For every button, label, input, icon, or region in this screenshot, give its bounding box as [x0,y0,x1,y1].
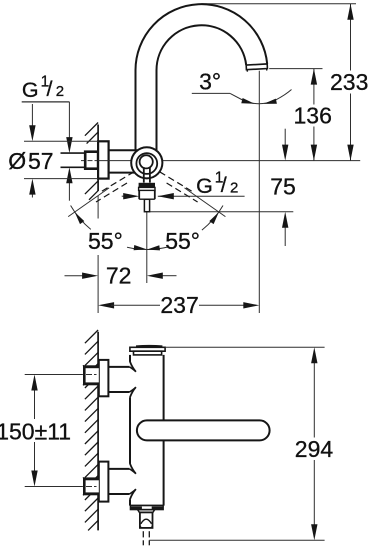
body tube bottom edge [130,505,164,507]
outlet flange [138,510,155,513]
leader arrow G1/2 to pipe stub top [68,102,70,141]
svg-text:G: G [196,174,213,198]
wire: top extension line from spout apex (233 ref) [202,3,357,5]
svg-text:75: 75 [270,173,296,199]
dimension Ø57 arrows [31,104,33,130]
3° leader arc [230,90,291,104]
dimension 294 extension lines [165,346,325,348]
svg-text:3°: 3° [199,68,221,94]
wall line (side view) [97,332,99,531]
dimension Ø57 extension lines [24,140,98,142]
union nut centerline dashes [88,160,93,162]
svg-text:294: 294 [295,436,334,462]
supply tube from escutcheon to body (top view) [109,149,137,151]
lever handle (side view) [137,420,270,440]
55° reference line left [68,188,109,217]
wire: spout outlet vertical extension line [258,71,260,313]
svg-text:2: 2 [56,83,64,100]
wall hatching above flange (top view) [85,123,98,136]
upper wall union (side view) [99,360,109,396]
wire: body centerline extension down to 72 dimension [146,212,148,283]
G1/2 inlet pipe stub (top view) [61,152,86,154]
wall hatching below flange (top view) [85,181,98,194]
svg-text:237: 237 [160,292,198,318]
55° arc center arrowheads [134,245,147,250]
svg-text:/: / [221,173,227,197]
body tube right edge (side view) [163,355,165,421]
gooseneck spout outer contour [135,4,267,150]
body top cap [136,345,162,348]
wall hatching (side view) [85,330,98,343]
lower wall union (side view) [99,462,109,502]
svg-text:/: / [47,77,53,101]
faucet body outer circle [131,147,162,178]
wire: lower reference line at outlet level (75 ref) [150,211,294,213]
dimension 72 arrows [65,275,85,277]
faucet body middle circle [136,153,157,174]
dimension 237 line and arrows [98,302,114,308]
handle stem below body [143,167,145,182]
svg-text:150±11: 150±11 [0,418,71,444]
aerator housing [140,512,153,528]
collar black band [139,183,155,188]
55° arc end arrowheads [75,212,85,224]
aerator outlet stub [144,199,149,211]
svg-text:G: G [22,78,39,102]
faucet body inner circle (handle hub) [140,155,153,168]
svg-text:55°: 55° [88,228,123,254]
gooseneck spout inner contour [156,25,246,150]
arrow G1/2 pipe stub bottom [68,180,70,201]
55° dimension arc [71,206,91,230]
G1/2 outlet leader arrows [158,193,174,199]
wire: wall extension line down to 237 dimension [97,196,99,219]
svg-text:136: 136 [294,103,332,129]
svg-text:Ø 57: Ø 57 [8,148,53,174]
dimension 136 line and arrows [313,69,315,105]
handle phantom dashed lines right (55° swing) [160,172,194,192]
wire: spout outlet horizontal extension line (136 ref) [269,68,322,70]
svg-text:2: 2 [230,179,238,196]
handle phantom dashed lines left (55° swing) [101,172,135,192]
union nut (top view) [85,152,98,169]
55° reference line right [185,188,226,217]
3° arc arrowheads [241,98,254,104]
wire: horizontal centerline of faucet body (top view) [98,160,360,162]
svg-text:233: 233 [330,69,368,95]
water stream dashes [142,531,144,537]
wire: centerline dash left of union nut (top view) [81,160,85,162]
body tube left edge (side view) [129,355,131,362]
dimension 150±11 extension lines [25,374,83,376]
collar lower ring [139,187,155,190]
dimension 75 arrows [284,129,286,146]
dimension 150±11 line and arrows [34,390,36,420]
wall escutcheon Ø57 (top view) [98,141,109,178]
dimension 294 line and arrows [313,363,315,438]
dimension 233 line and arrows [350,4,352,71]
svg-text:55°: 55° [165,228,200,254]
svg-text:72: 72 [106,262,132,288]
wall line (top view) [97,125,99,192]
body base ring [130,506,163,510]
spout outlet end face (3° cut) with aerator band [246,64,267,70]
G1/2 outlet tube (bottom of body) [138,190,140,199]
